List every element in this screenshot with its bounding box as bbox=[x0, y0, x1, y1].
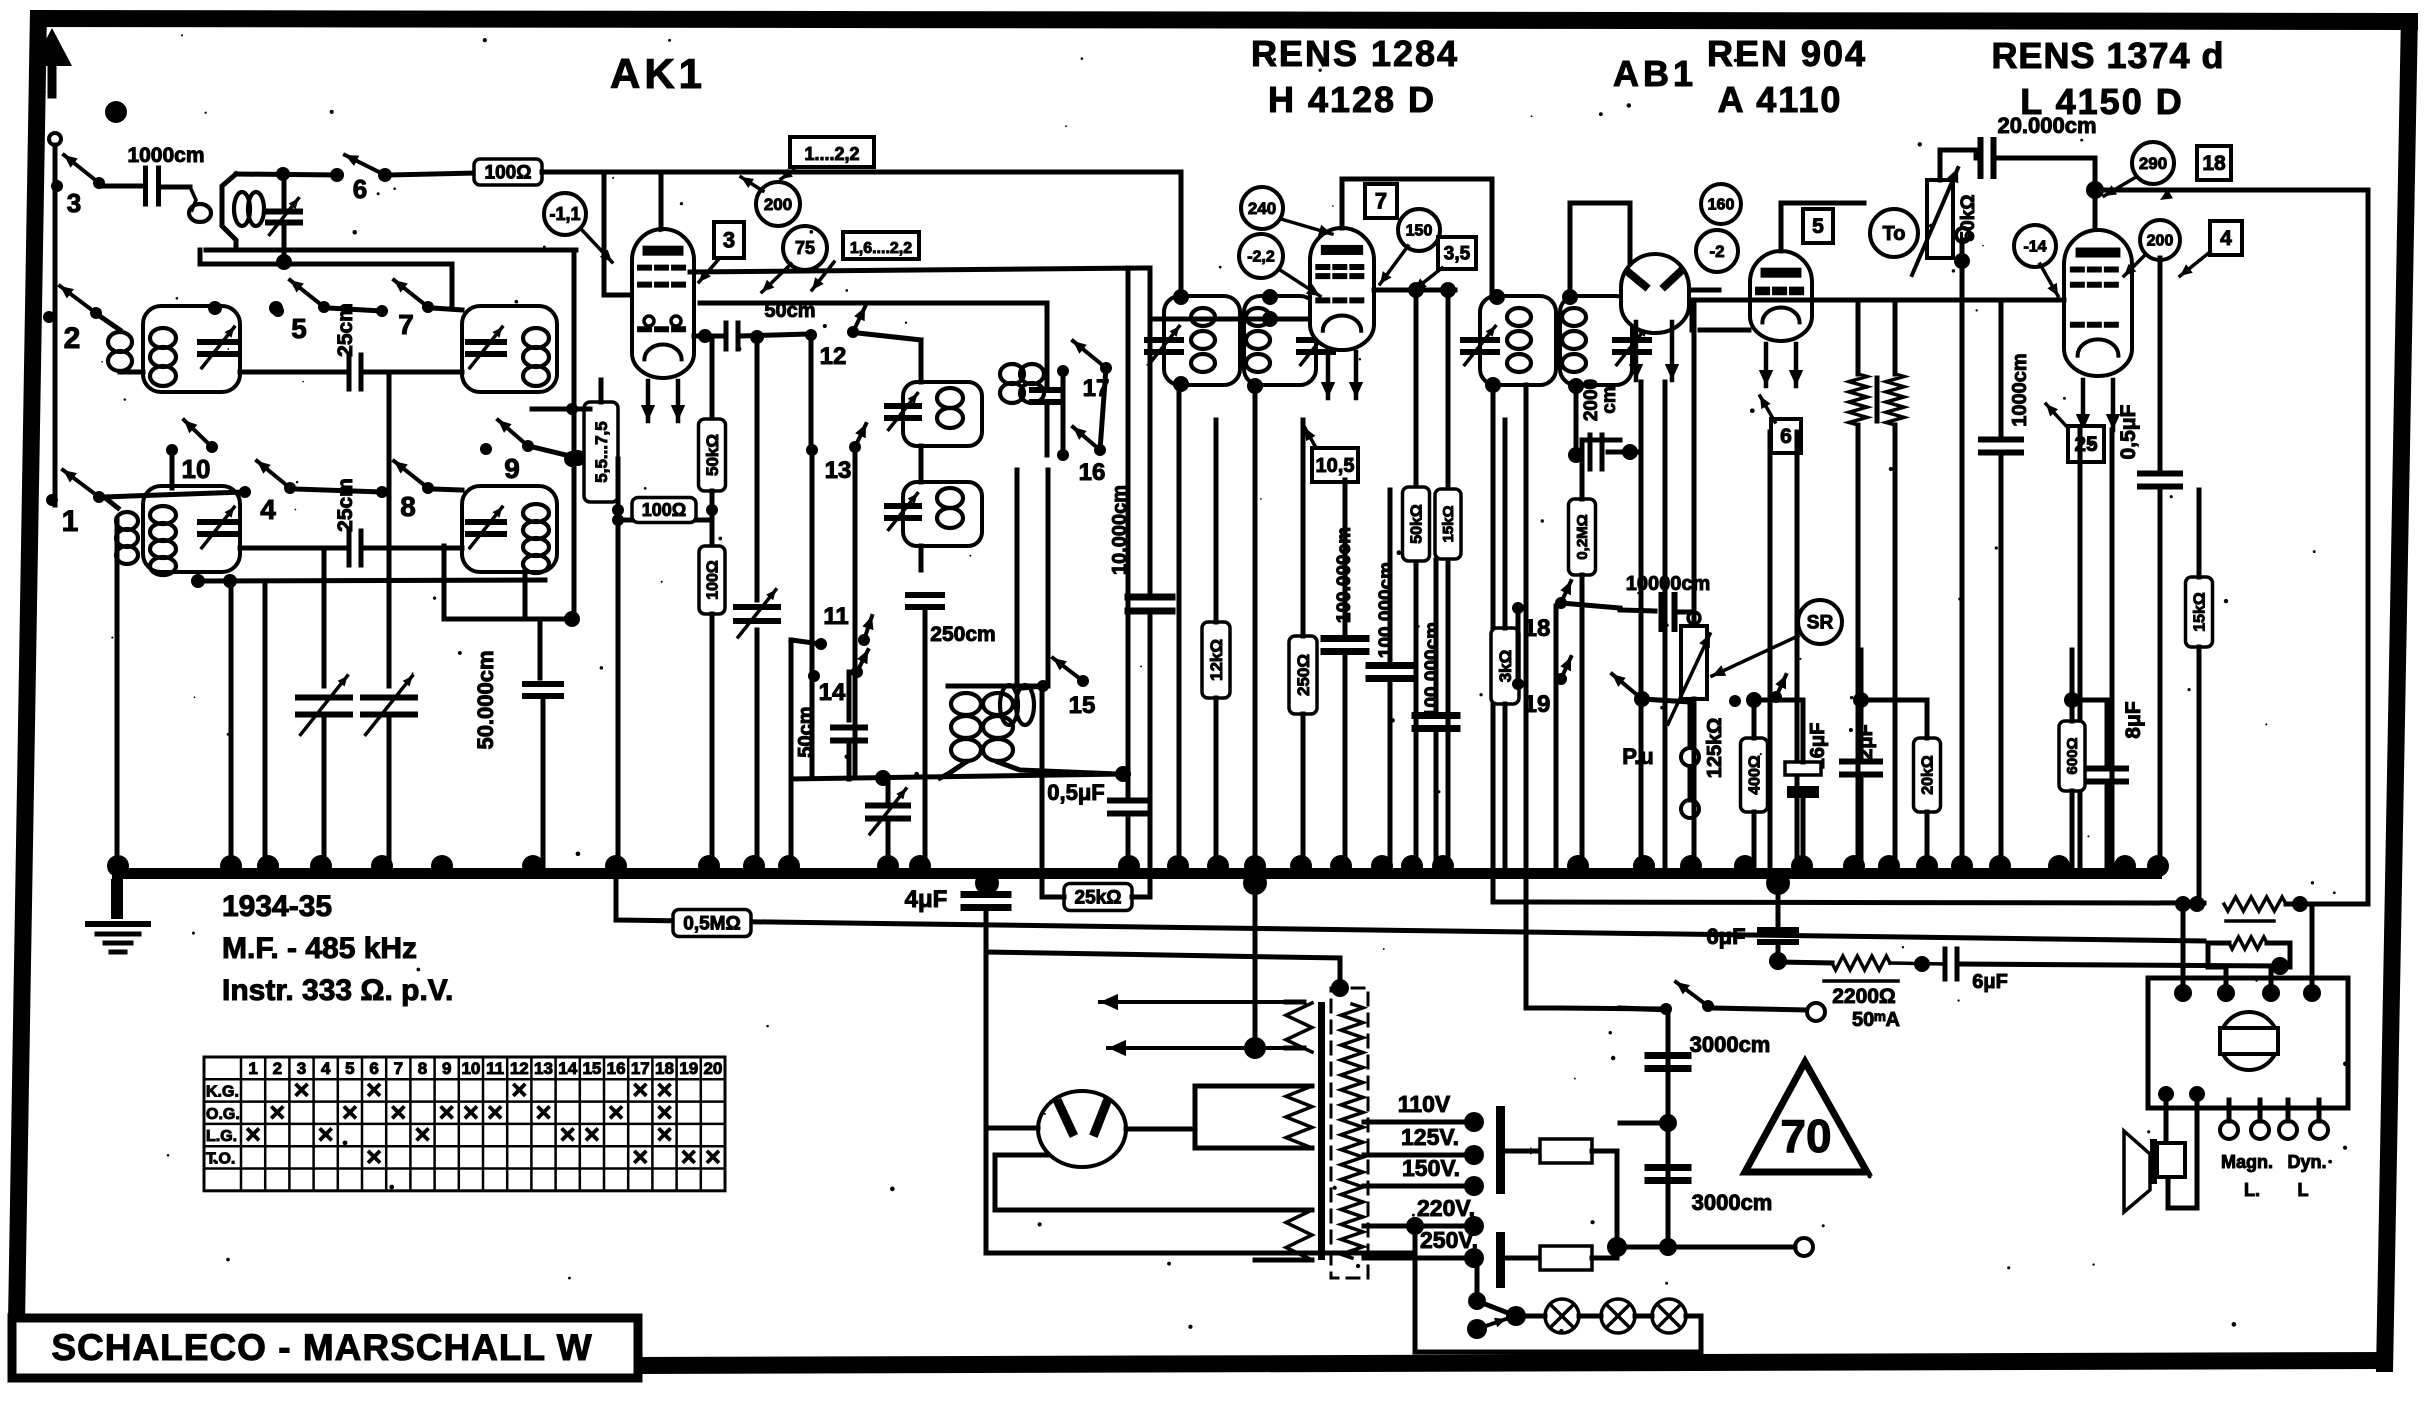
svg-text:18: 18 bbox=[655, 1059, 674, 1078]
svg-text:2200Ω: 2200Ω bbox=[1832, 985, 1896, 1008]
svg-text:15kΩ: 15kΩ bbox=[1440, 505, 1457, 542]
svg-text:6μF: 6μF bbox=[1706, 924, 1745, 949]
svg-text:1934-35: 1934-35 bbox=[222, 890, 332, 923]
svg-text:✕: ✕ bbox=[583, 1124, 601, 1147]
svg-text:✕: ✕ bbox=[631, 1146, 649, 1169]
svg-text:4: 4 bbox=[321, 1059, 331, 1078]
svg-text:Instr. 333 Ω. p.V.: Instr. 333 Ω. p.V. bbox=[222, 974, 453, 1007]
svg-text:9: 9 bbox=[504, 453, 520, 484]
svg-text:L.G.: L.G. bbox=[206, 1128, 237, 1145]
svg-text:-14: -14 bbox=[2023, 238, 2046, 255]
svg-text:15: 15 bbox=[1069, 692, 1096, 719]
svg-text:16: 16 bbox=[1079, 459, 1106, 486]
svg-text:11: 11 bbox=[823, 603, 848, 630]
svg-text:✕: ✕ bbox=[365, 1146, 383, 1169]
svg-text:1: 1 bbox=[62, 505, 79, 538]
svg-text:14: 14 bbox=[558, 1059, 577, 1078]
svg-text:7: 7 bbox=[398, 309, 414, 340]
svg-text:✕: ✕ bbox=[535, 1102, 553, 1125]
svg-text:11: 11 bbox=[486, 1059, 504, 1078]
svg-text:150: 150 bbox=[1406, 222, 1433, 239]
svg-text:✕: ✕ bbox=[293, 1079, 311, 1102]
svg-text:1....2,2: 1....2,2 bbox=[804, 144, 859, 164]
svg-text:✕: ✕ bbox=[462, 1102, 480, 1125]
svg-text:1000cm: 1000cm bbox=[2009, 353, 2031, 426]
svg-text:✕: ✕ bbox=[680, 1146, 698, 1169]
svg-text:9: 9 bbox=[442, 1059, 451, 1078]
svg-text:5: 5 bbox=[291, 313, 307, 344]
svg-text:50.000cm: 50.000cm bbox=[473, 650, 498, 749]
svg-text:10,5: 10,5 bbox=[1316, 455, 1355, 477]
svg-text:0,2MΩ: 0,2MΩ bbox=[1574, 514, 1591, 559]
svg-text:cm: cm bbox=[1599, 386, 1620, 413]
svg-text:20kΩ: 20kΩ bbox=[1919, 755, 1936, 795]
svg-text:10.000cm: 10.000cm bbox=[1109, 485, 1131, 575]
svg-text:0,5μF: 0,5μF bbox=[1047, 780, 1104, 805]
svg-text:T.O.: T.O. bbox=[206, 1151, 235, 1168]
svg-text:5: 5 bbox=[345, 1059, 354, 1078]
svg-text:✕: ✕ bbox=[704, 1146, 722, 1169]
svg-text:17: 17 bbox=[631, 1059, 650, 1078]
svg-text:12: 12 bbox=[820, 343, 847, 370]
svg-text:RENS 1374 d: RENS 1374 d bbox=[1991, 35, 2224, 76]
svg-text:0,5MΩ: 0,5MΩ bbox=[683, 913, 740, 934]
svg-text:✕: ✕ bbox=[656, 1124, 674, 1147]
svg-text:250Ω: 250Ω bbox=[1294, 654, 1313, 696]
svg-text:SCHALECO - MARSCHALL W: SCHALECO - MARSCHALL W bbox=[51, 1327, 592, 1368]
svg-text:0,5μF: 0,5μF bbox=[2117, 404, 2140, 459]
svg-text:13: 13 bbox=[825, 457, 852, 484]
svg-text:7: 7 bbox=[394, 1059, 403, 1078]
svg-text:5,5...7,5: 5,5...7,5 bbox=[592, 421, 611, 482]
svg-text:3: 3 bbox=[67, 188, 81, 218]
svg-text:75: 75 bbox=[795, 238, 815, 258]
svg-text:3,5: 3,5 bbox=[1444, 243, 1471, 264]
svg-text:4μF: 4μF bbox=[905, 886, 948, 913]
svg-text:220V.: 220V. bbox=[1417, 1195, 1475, 1221]
svg-text:✕: ✕ bbox=[317, 1124, 335, 1147]
svg-text:✕: ✕ bbox=[486, 1102, 504, 1125]
svg-text:10: 10 bbox=[182, 454, 211, 484]
svg-text:290: 290 bbox=[2139, 154, 2167, 173]
svg-text:6: 6 bbox=[369, 1059, 378, 1078]
svg-text:✕: ✕ bbox=[365, 1079, 383, 1102]
svg-text:240: 240 bbox=[1248, 199, 1276, 218]
svg-text:✕: ✕ bbox=[559, 1124, 577, 1147]
svg-text:100Ω: 100Ω bbox=[642, 500, 686, 520]
svg-text:8μF: 8μF bbox=[2122, 701, 2145, 739]
svg-text:6μF: 6μF bbox=[1972, 971, 2008, 993]
svg-text:8: 8 bbox=[418, 1059, 427, 1078]
svg-text:20.000cm: 20.000cm bbox=[1997, 113, 2096, 138]
svg-text:RENS 1284: RENS 1284 bbox=[1251, 33, 1459, 74]
svg-text:12: 12 bbox=[510, 1059, 529, 1078]
svg-text:P.u: P.u bbox=[1622, 744, 1653, 769]
svg-text:25cm: 25cm bbox=[334, 303, 357, 357]
svg-text:✕: ✕ bbox=[268, 1102, 286, 1125]
svg-text:M.F. - 485 kHz: M.F. - 485 kHz bbox=[222, 932, 417, 965]
svg-text:250cm: 250cm bbox=[930, 623, 995, 646]
svg-text:L: L bbox=[2298, 1180, 2309, 1200]
svg-text:125kΩ: 125kΩ bbox=[1704, 718, 1726, 779]
svg-text:A 4110: A 4110 bbox=[1718, 79, 1843, 120]
svg-text:15kΩ: 15kΩ bbox=[2191, 592, 2208, 632]
svg-text:AK1: AK1 bbox=[610, 50, 706, 97]
svg-text:1000cm: 1000cm bbox=[127, 144, 204, 167]
svg-text:Dyn.: Dyn. bbox=[2287, 1152, 2326, 1172]
svg-text:50ᵐA: 50ᵐA bbox=[1852, 1009, 1900, 1031]
svg-text:✕: ✕ bbox=[341, 1102, 359, 1125]
svg-text:16: 16 bbox=[607, 1059, 626, 1078]
svg-text:REN 904: REN 904 bbox=[1707, 33, 1867, 74]
svg-text:14: 14 bbox=[819, 679, 846, 706]
svg-text:3: 3 bbox=[723, 227, 735, 252]
svg-text:10: 10 bbox=[461, 1059, 480, 1078]
svg-text:✕: ✕ bbox=[656, 1079, 674, 1102]
svg-text:50kΩ: 50kΩ bbox=[703, 434, 722, 476]
svg-text:19: 19 bbox=[1524, 691, 1551, 718]
svg-text:3000cm: 3000cm bbox=[1690, 1032, 1771, 1057]
svg-text:AB1: AB1 bbox=[1613, 53, 1697, 94]
svg-text:100Ω: 100Ω bbox=[485, 162, 532, 183]
svg-text:O.G.: O.G. bbox=[206, 1106, 240, 1123]
svg-text:-1,1: -1,1 bbox=[549, 204, 580, 224]
svg-text:13: 13 bbox=[534, 1059, 553, 1078]
svg-text:25kΩ: 25kΩ bbox=[1075, 887, 1122, 908]
svg-text:400Ω: 400Ω bbox=[1746, 755, 1763, 795]
svg-text:✕: ✕ bbox=[631, 1079, 649, 1102]
svg-text:100.000cm: 100.000cm bbox=[1376, 562, 1397, 658]
svg-text:6: 6 bbox=[353, 174, 367, 204]
svg-text:SR: SR bbox=[1807, 612, 1834, 633]
svg-text:200: 200 bbox=[2147, 232, 2174, 249]
svg-text:5: 5 bbox=[1812, 215, 1824, 238]
svg-text:2μF: 2μF bbox=[1855, 724, 1877, 760]
svg-text:Magn.: Magn. bbox=[2221, 1152, 2273, 1172]
svg-text:125V.: 125V. bbox=[1401, 1124, 1459, 1150]
svg-text:200: 200 bbox=[764, 195, 792, 214]
svg-text:H 4128 D: H 4128 D bbox=[1268, 79, 1436, 120]
svg-text:✕: ✕ bbox=[389, 1102, 407, 1125]
svg-text:✕: ✕ bbox=[414, 1124, 432, 1147]
svg-text:250V.: 250V. bbox=[1420, 1227, 1478, 1253]
svg-text:18: 18 bbox=[2202, 152, 2226, 175]
svg-text:2: 2 bbox=[64, 322, 81, 355]
svg-text:4: 4 bbox=[260, 494, 276, 525]
svg-text:3kΩ: 3kΩ bbox=[1496, 650, 1515, 683]
svg-text:✕: ✕ bbox=[438, 1102, 456, 1125]
svg-text:L.: L. bbox=[2244, 1180, 2260, 1200]
svg-text:To: To bbox=[1883, 223, 1906, 245]
svg-text:160: 160 bbox=[1708, 196, 1735, 213]
svg-text:15: 15 bbox=[582, 1059, 601, 1078]
svg-text:1,6....2,2: 1,6....2,2 bbox=[850, 240, 912, 257]
svg-text:12kΩ: 12kΩ bbox=[1207, 639, 1226, 681]
svg-text:1: 1 bbox=[248, 1059, 257, 1078]
svg-text:-2: -2 bbox=[1709, 242, 1724, 261]
svg-text:19: 19 bbox=[679, 1059, 698, 1078]
svg-text:70: 70 bbox=[1780, 1110, 1831, 1162]
svg-text:10000cm: 10000cm bbox=[1626, 573, 1711, 595]
svg-text:600Ω: 600Ω bbox=[2064, 737, 2081, 774]
svg-text:3000cm: 3000cm bbox=[1692, 1190, 1773, 1215]
svg-text:18: 18 bbox=[1524, 615, 1551, 642]
svg-text:-2,2: -2,2 bbox=[1247, 248, 1275, 265]
svg-text:2: 2 bbox=[273, 1059, 282, 1078]
svg-text:150V.: 150V. bbox=[1402, 1155, 1460, 1181]
svg-text:25cm: 25cm bbox=[334, 478, 357, 532]
svg-text:100Ω: 100Ω bbox=[704, 560, 721, 600]
svg-text:8: 8 bbox=[400, 491, 416, 522]
svg-text:K.G.: K.G. bbox=[206, 1084, 239, 1101]
svg-text:4: 4 bbox=[2220, 227, 2232, 250]
svg-text:110V: 110V bbox=[1398, 1091, 1451, 1117]
svg-text:6: 6 bbox=[1780, 425, 1792, 448]
svg-text:✕: ✕ bbox=[244, 1124, 262, 1147]
svg-text:50kΩ: 50kΩ bbox=[1408, 504, 1425, 544]
svg-text:✕: ✕ bbox=[656, 1102, 674, 1125]
svg-text:✕: ✕ bbox=[607, 1102, 625, 1125]
svg-text:3: 3 bbox=[297, 1059, 306, 1078]
svg-text:✕: ✕ bbox=[510, 1079, 528, 1102]
svg-text:100.000cm: 100.000cm bbox=[1422, 622, 1443, 718]
svg-text:20: 20 bbox=[703, 1059, 722, 1078]
svg-text:7: 7 bbox=[1375, 188, 1387, 213]
